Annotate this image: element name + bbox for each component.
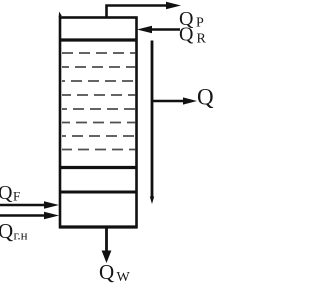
label Q_F xyxy=(0,182,20,204)
svg-text:R: R xyxy=(197,32,207,47)
reboiler section divider xyxy=(59,190,138,193)
tray dashed line 6 xyxy=(62,122,136,124)
svg-text:W: W xyxy=(117,270,131,285)
svg-text:Q: Q xyxy=(197,85,214,110)
tray dashed line 1 xyxy=(62,52,136,54)
label Q_R xyxy=(179,24,207,47)
column shell xyxy=(60,18,137,228)
tray section bottom divider xyxy=(59,166,138,169)
svg-text:Q: Q xyxy=(0,182,13,204)
label Q_W xyxy=(99,260,131,285)
arrow Q_R (reflux, into column) xyxy=(137,26,180,34)
arrow Q (heat out) xyxy=(152,97,197,104)
tray dashed line 8 xyxy=(62,149,136,151)
tray dashed line 5 xyxy=(62,108,136,110)
svg-text:Q: Q xyxy=(179,24,194,46)
heat bypass line (right vertical) xyxy=(150,41,154,205)
arrow Q_F (feed, into column) xyxy=(0,201,59,209)
top-left corner tick xyxy=(59,12,62,18)
label Q xyxy=(197,85,214,110)
tray dashed line 4 xyxy=(62,94,136,96)
tray dashed line 7 xyxy=(62,135,136,137)
label Q_P xyxy=(179,8,204,31)
bottoms pipe (arrow Q_W down) xyxy=(102,228,112,263)
tray dashed line 3 xyxy=(62,80,136,82)
svg-text:Q: Q xyxy=(0,219,13,243)
column bottom edge reinforcement xyxy=(59,225,138,228)
condenser section divider xyxy=(59,38,138,41)
distillate pipe (top outlet) xyxy=(107,2,182,17)
arrow Q_г.н (heating medium, into column) xyxy=(0,212,59,220)
svg-text:P: P xyxy=(196,16,204,31)
svg-text:г.н: г.н xyxy=(14,228,28,243)
label Q_г.н xyxy=(0,219,28,243)
svg-text:Q: Q xyxy=(99,260,114,284)
tray dashed line 2 xyxy=(62,66,136,68)
svg-text:F: F xyxy=(13,189,20,204)
